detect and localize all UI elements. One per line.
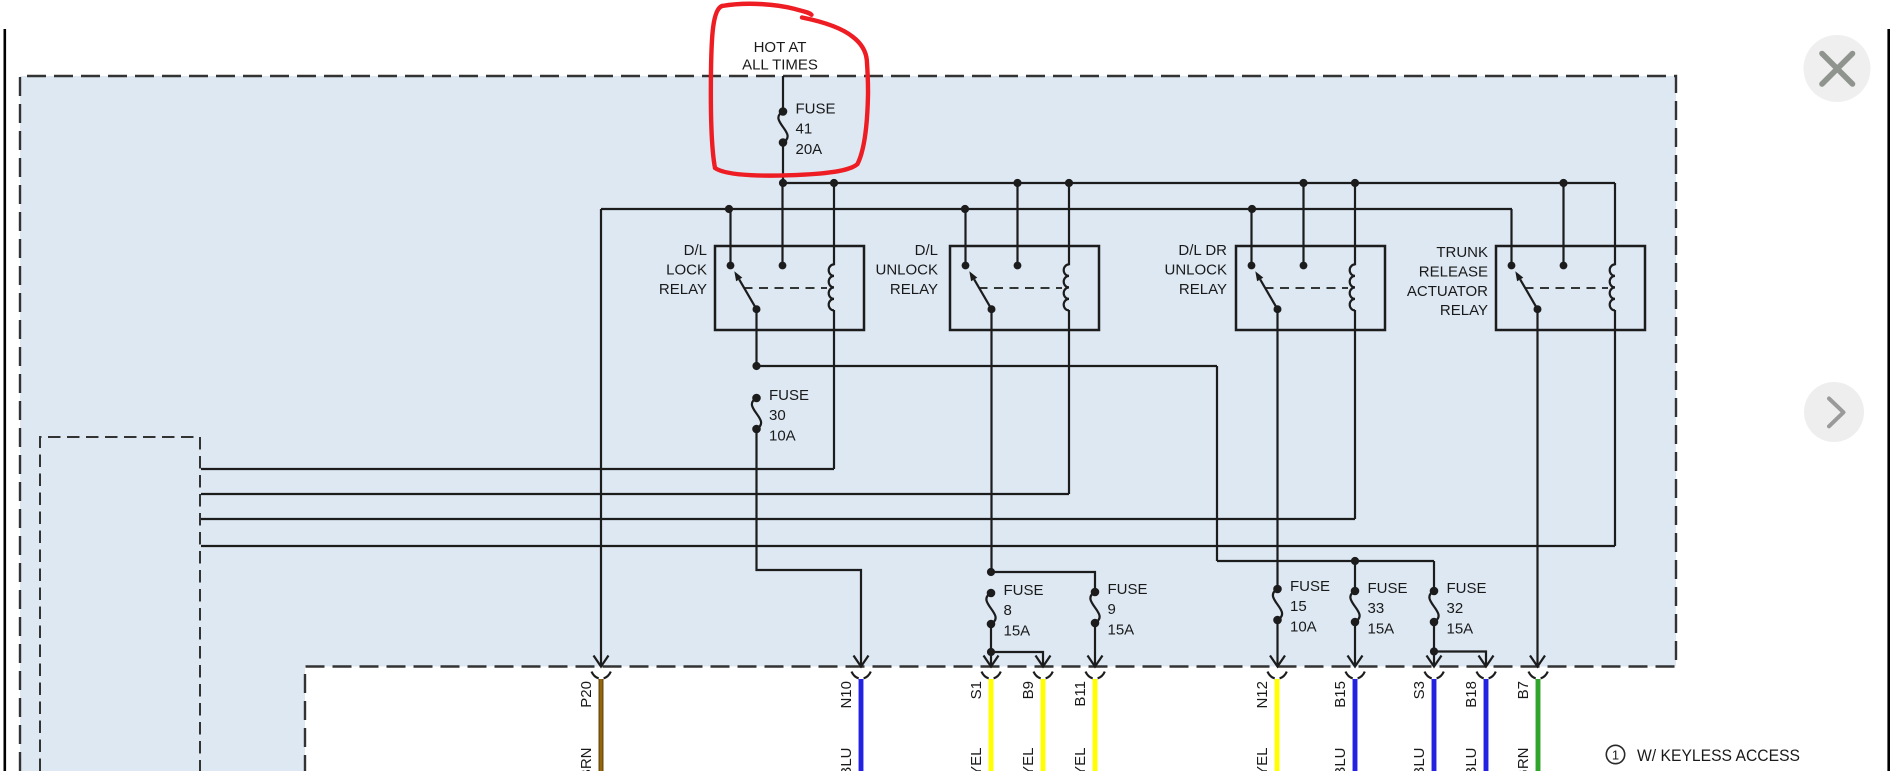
svg-text:10A: 10A	[1290, 619, 1317, 636]
svg-text:YEL: YEL	[1072, 748, 1089, 771]
junction below fuse 8	[987, 648, 995, 656]
wire: relay3 coil tail	[1354, 310, 1356, 519]
wire: relay3 pivot down to fuse 15	[1276, 309, 1278, 589]
junction on hot bus x=1069	[1065, 179, 1073, 187]
switch arm	[974, 279, 991, 309]
svg-text:P20: P20	[578, 681, 595, 708]
wire: branch drop x=1217	[1216, 366, 1218, 561]
svg-text:8: 8	[1004, 602, 1012, 619]
wire: switched bus (y=209)	[601, 208, 1512, 210]
wire: hot bus (y=183)	[783, 182, 1615, 184]
svg-text:B18: B18	[1463, 681, 1480, 708]
wire: hot contact pin	[1016, 183, 1018, 266]
svg-text:15A: 15A	[1368, 621, 1395, 638]
relay box: D/L RELAY	[950, 246, 1099, 330]
junction on switched bus x=965	[961, 205, 969, 213]
svg-text:9: 9	[1108, 601, 1116, 618]
wire: branch horizontal y=561	[1217, 560, 1434, 562]
junction at fuse 8 top	[987, 568, 995, 576]
switch arm	[1520, 279, 1537, 309]
wire: branch to B18	[1434, 652, 1486, 666]
red annotation circle around HOT AT ALL TIMES / FUSE 41	[711, 4, 868, 176]
wire P20 (BRN)	[599, 679, 604, 771]
wire: feed to fuse 33	[1354, 561, 1356, 591]
junction on hot bus x=1017.5	[1013, 179, 1021, 187]
wire: control bus 2 (y=494)	[201, 493, 1069, 495]
svg-text:YEL: YEL	[968, 748, 985, 771]
next (>) button	[1804, 382, 1864, 442]
wire: control bus 4 (y=546)	[201, 545, 1615, 547]
relay coil	[1610, 264, 1615, 310]
junction feeding fuse 33	[1351, 557, 1359, 565]
connector pin B9	[1034, 672, 1041, 679]
connector pin P20	[592, 672, 599, 679]
relay box: D/L DR RELAY	[1236, 246, 1385, 330]
wire: control bus 1 (y=469)	[201, 468, 834, 470]
wire B15 (BLU)	[1353, 679, 1358, 771]
svg-text:15A: 15A	[1004, 623, 1031, 640]
svg-text:W/ KEYLESS ACCESS: W/ KEYLESS ACCESS	[1637, 746, 1800, 765]
left page border	[4, 29, 7, 771]
wire S1 (YEL)	[989, 679, 994, 771]
switch pivot	[988, 305, 996, 313]
fuse F32 element	[1430, 587, 1439, 596]
wire: relay1 coil tail	[833, 310, 835, 469]
junction on switched bus x=729	[725, 205, 733, 213]
diagram area (light blue)	[20, 76, 1676, 771]
mechanical link (dashed)	[744, 287, 828, 289]
wire: coil upper pin	[1614, 183, 1616, 265]
svg-text:N10: N10	[838, 681, 855, 709]
wire: NO contact pin	[1510, 209, 1512, 266]
contact (switch throw)	[1248, 262, 1256, 270]
connector pin N12	[1268, 672, 1275, 679]
contact (switch throw)	[962, 262, 970, 270]
svg-text:32: 32	[1447, 600, 1464, 617]
wire B11 (YEL)	[1093, 679, 1098, 771]
contact (battery feed)	[1300, 262, 1308, 270]
contact (switch throw)	[1508, 262, 1516, 270]
svg-text:FUSE: FUSE	[769, 387, 809, 404]
junction on hot bus x=1355	[1351, 179, 1359, 187]
svg-text:FUSE: FUSE	[1004, 582, 1044, 599]
svg-text:1: 1	[1612, 748, 1619, 763]
wire: fuse 30 down and jog to N10	[757, 429, 862, 666]
wire N10 (BLU)	[859, 679, 864, 771]
switch pivot	[1534, 305, 1542, 313]
svg-text:BLU: BLU	[1463, 748, 1480, 771]
wire: hot contact pin	[1562, 183, 1564, 266]
junction on hot bus x=1303.5	[1299, 179, 1307, 187]
contact (battery feed)	[1560, 262, 1568, 270]
relay box: TRUNK RELAY	[1496, 246, 1645, 330]
junction on hot bus x=1563.5	[1559, 179, 1567, 187]
svg-text:S3: S3	[1411, 681, 1428, 699]
mechanical link (dashed)	[1265, 287, 1349, 289]
wire: hot contact pin	[1302, 183, 1304, 266]
svg-text:B15: B15	[1332, 681, 1349, 708]
wire: relay4 pivot down to B7	[1536, 309, 1538, 666]
wire: branch to B9	[991, 652, 1043, 666]
wire: fuse 41 to hot bus	[782, 143, 784, 184]
wire B9 (YEL)	[1041, 679, 1046, 771]
svg-text:BLU: BLU	[838, 748, 855, 771]
wire: coil upper pin	[1068, 183, 1070, 265]
svg-text:FUSE: FUSE	[1447, 580, 1487, 597]
svg-text:33: 33	[1368, 600, 1385, 617]
hidden component dashed box (bottom left)	[40, 437, 200, 771]
fuse F41 element	[779, 107, 788, 116]
svg-text:B11: B11	[1072, 681, 1089, 707]
junction at fuse 30 top	[752, 362, 760, 370]
wire: fuse 9 to B11	[1094, 623, 1096, 666]
wire: relay1 pivot to fuse 30	[755, 309, 757, 366]
svg-text:30: 30	[769, 407, 786, 424]
connector pin S1	[982, 672, 989, 679]
svg-text:YEL: YEL	[1254, 748, 1271, 771]
wire: battery feed into fuse 41	[782, 76, 784, 112]
svg-text:15: 15	[1290, 598, 1307, 615]
svg-text:S1: S1	[968, 681, 985, 699]
wire B18 (BLU)	[1484, 679, 1489, 771]
svg-text:BLU: BLU	[1332, 748, 1349, 771]
connector pin N10	[852, 672, 859, 679]
wire: fuse 33 to B15	[1354, 622, 1356, 666]
wire: relay2 pivot down to fuse 8 node	[990, 309, 992, 572]
svg-text:B7: B7	[1515, 681, 1532, 699]
switch arm	[1260, 279, 1277, 309]
wire: feed to fuse 32	[1433, 561, 1435, 591]
right page border	[1887, 29, 1890, 771]
connector pin S3	[1425, 672, 1432, 679]
relay coil	[829, 264, 834, 310]
wire: relay4 coil tail	[1614, 310, 1616, 546]
wire S3 (BLU)	[1432, 679, 1437, 771]
svg-text:20A: 20A	[796, 141, 823, 158]
contact (battery feed)	[1014, 262, 1022, 270]
connector pin B15	[1346, 672, 1353, 679]
dashed border of diagram area	[20, 76, 1676, 771]
junction on switched bus x=1252	[1248, 205, 1256, 213]
wire: fuse 15 to N12	[1276, 620, 1278, 666]
wire: fuse 8 to S1	[990, 624, 992, 666]
wire: fuse 32 to S3	[1433, 622, 1435, 666]
svg-text:B9: B9	[1020, 681, 1037, 699]
svg-text:BLU: BLU	[1411, 748, 1428, 771]
svg-text:15A: 15A	[1447, 621, 1474, 638]
wire: branch to fuse 9	[991, 572, 1095, 592]
wire: coil upper pin	[1354, 183, 1356, 265]
wire: control bus 3 (y=519)	[201, 518, 1355, 520]
contact (battery feed)	[779, 262, 787, 270]
relay coil	[1064, 264, 1069, 310]
svg-text:FUSE: FUSE	[1108, 581, 1148, 598]
svg-text:BRN: BRN	[578, 748, 595, 771]
svg-text:YEL: YEL	[1020, 748, 1037, 771]
svg-text:HOT ATALL TIMES: HOT ATALL TIMES	[742, 39, 818, 73]
switch arm	[739, 279, 756, 309]
junction on hot bus x=783	[779, 179, 787, 187]
wire: fuse30 node to fuse bank branch (horizontal y=366)	[757, 365, 1218, 367]
mechanical link (dashed)	[1525, 287, 1609, 289]
wire N12 (YEL)	[1275, 679, 1280, 771]
connector pin B7	[1529, 672, 1536, 679]
switch pivot	[1274, 305, 1282, 313]
svg-text:FUSE: FUSE	[1368, 580, 1408, 597]
connector pin B18	[1477, 672, 1484, 679]
mechanical link (dashed)	[979, 287, 1063, 289]
close (X) button	[1804, 35, 1871, 102]
svg-text:FUSE: FUSE	[1290, 578, 1330, 595]
wire: coil upper pin	[833, 183, 835, 265]
fuse F8 element	[987, 589, 996, 598]
svg-text:15A: 15A	[1108, 622, 1135, 639]
junction below fuse 32	[1430, 647, 1438, 655]
fuse F30 element	[752, 394, 761, 403]
wire B7 (GRN)	[1536, 679, 1541, 771]
relay box: D/L RELAY	[715, 246, 864, 330]
switch pivot	[753, 305, 761, 313]
fuse F9 element	[1091, 588, 1100, 597]
contact (switch throw)	[727, 262, 735, 270]
relay coil	[1350, 264, 1355, 310]
wire: NO contact pin	[964, 209, 966, 266]
svg-text:FUSE: FUSE	[796, 101, 836, 118]
svg-text:N12: N12	[1254, 681, 1271, 709]
wire: switched bus drop to P20	[600, 209, 602, 666]
wire: NO contact pin	[729, 209, 731, 266]
junction on hot bus x=834	[830, 179, 838, 187]
connector pin B11	[1086, 672, 1093, 679]
svg-text:41: 41	[796, 121, 813, 138]
wire: hot contact pin	[781, 183, 783, 266]
svg-text:10A: 10A	[769, 428, 796, 445]
wire: NO contact pin	[1250, 209, 1252, 266]
wire: relay2 coil tail	[1068, 310, 1070, 494]
fuse F15 element	[1273, 585, 1282, 594]
svg-text:GRN: GRN	[1515, 748, 1532, 771]
note: 1 = W/ KEYLESS ACCESS	[1606, 745, 1800, 765]
fuse F33 element	[1351, 587, 1360, 596]
